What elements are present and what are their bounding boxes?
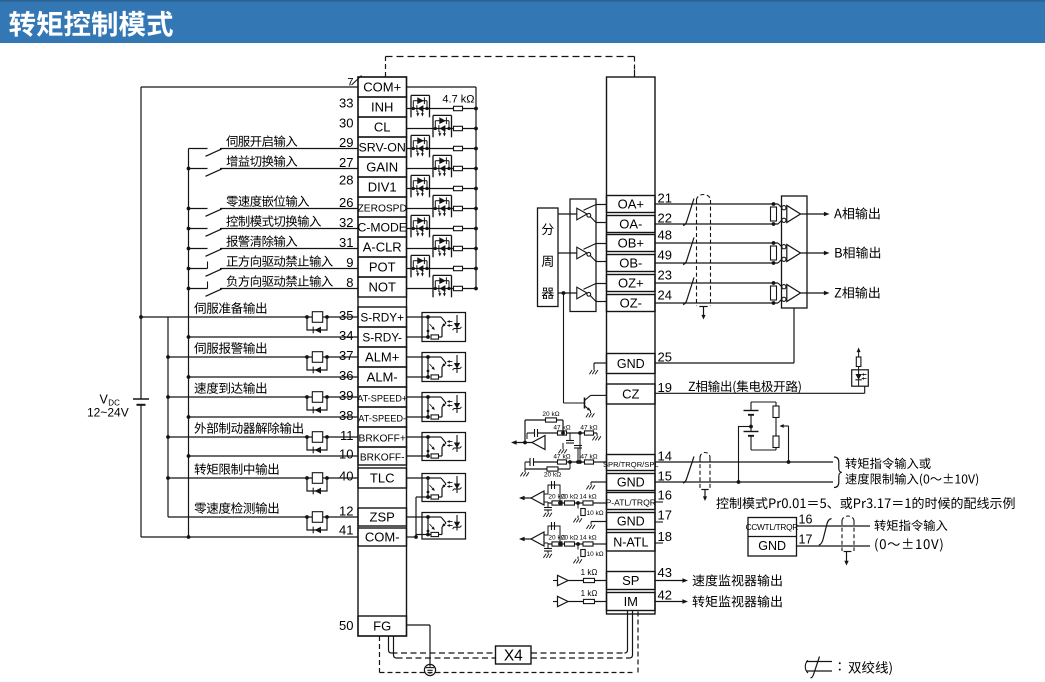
svg-text:16: 16: [658, 488, 672, 503]
svg-text:X4: X4: [504, 648, 523, 665]
svg-text:12: 12: [339, 504, 353, 519]
svg-text:TLC: TLC: [370, 471, 395, 486]
svg-text:ZEROSPD: ZEROSPD: [358, 204, 407, 215]
svg-text:49: 49: [658, 248, 672, 263]
svg-text:8: 8: [346, 275, 353, 290]
svg-text:29: 29: [339, 135, 353, 150]
svg-text:OZ+: OZ+: [618, 276, 644, 291]
svg-text:33: 33: [339, 96, 353, 111]
svg-text:ALM-: ALM-: [367, 370, 398, 385]
svg-text:SRV-ON: SRV-ON: [359, 141, 406, 155]
svg-text:OZ-: OZ-: [620, 296, 642, 311]
svg-text:41: 41: [339, 523, 353, 538]
svg-text:COM+: COM+: [363, 80, 401, 95]
svg-text:42: 42: [658, 588, 672, 603]
svg-text:31: 31: [339, 235, 353, 250]
svg-text:10 kΩ: 10 kΩ: [587, 510, 604, 517]
svg-text:N-ATL: N-ATL: [613, 536, 648, 550]
svg-text:34: 34: [339, 328, 353, 343]
svg-text:SPR/TRQR/SPL: SPR/TRQR/SPL: [603, 460, 659, 469]
svg-text:AT-SPEED+: AT-SPEED+: [357, 394, 407, 404]
svg-text:47 kΩ: 47 kΩ: [553, 453, 570, 460]
svg-text:S-RDY+: S-RDY+: [360, 311, 404, 325]
svg-text:17: 17: [658, 508, 672, 523]
svg-text:23: 23: [658, 268, 672, 283]
svg-text:CL: CL: [374, 120, 391, 135]
svg-text:CCWTL/TRQR: CCWTL/TRQR: [746, 522, 799, 532]
svg-text:14: 14: [658, 449, 672, 464]
svg-text:50: 50: [339, 618, 353, 633]
svg-text:ZSP: ZSP: [370, 510, 395, 525]
svg-text:GND: GND: [617, 515, 645, 529]
svg-text:BRKOFF-: BRKOFF-: [360, 453, 405, 464]
svg-text:GND: GND: [617, 357, 645, 371]
svg-text:OA+: OA+: [618, 197, 644, 212]
svg-text:15: 15: [658, 469, 672, 484]
svg-text:10 kΩ: 10 kΩ: [587, 551, 604, 558]
svg-text:CZ: CZ: [622, 387, 639, 402]
svg-text:ALM+: ALM+: [365, 350, 399, 365]
svg-text:1 kΩ: 1 kΩ: [581, 568, 598, 577]
svg-text:4.7 kΩ: 4.7 kΩ: [442, 94, 474, 106]
svg-text:24: 24: [658, 288, 672, 303]
svg-text:47 kΩ: 47 kΩ: [580, 453, 597, 460]
svg-text:10: 10: [339, 447, 353, 462]
svg-text:28: 28: [339, 173, 353, 188]
svg-text:20 kΩ: 20 kΩ: [561, 493, 578, 500]
svg-text:39: 39: [339, 388, 353, 403]
svg-text:S-RDY-: S-RDY-: [362, 331, 402, 345]
svg-text:OA-: OA-: [619, 217, 642, 232]
svg-text:V: V: [100, 393, 109, 407]
svg-text:BRKOFF+: BRKOFF+: [359, 434, 406, 445]
svg-text:IM: IM: [624, 594, 638, 609]
svg-text:A-CLR: A-CLR: [363, 240, 402, 255]
svg-text:16: 16: [799, 513, 813, 527]
svg-text:38: 38: [339, 408, 353, 423]
svg-text:1 kΩ: 1 kΩ: [581, 589, 598, 598]
svg-text:FG: FG: [373, 619, 391, 634]
svg-text:GND: GND: [758, 539, 786, 553]
svg-text:GND: GND: [617, 476, 645, 490]
svg-text:OB+: OB+: [618, 236, 644, 251]
svg-text:47 kΩ: 47 kΩ: [580, 424, 597, 431]
svg-text:40: 40: [339, 469, 353, 484]
svg-text:25: 25: [658, 350, 672, 365]
svg-text:11: 11: [340, 428, 354, 443]
svg-text:30: 30: [339, 116, 353, 131]
svg-text:17: 17: [799, 533, 813, 547]
svg-text:INH: INH: [371, 100, 393, 115]
svg-text:12~24V: 12~24V: [87, 406, 129, 420]
svg-text:NOT: NOT: [368, 280, 396, 295]
svg-text:43: 43: [658, 565, 672, 580]
svg-text:37: 37: [339, 348, 353, 363]
svg-text:22: 22: [658, 211, 672, 226]
svg-text:20 kΩ: 20 kΩ: [561, 534, 578, 541]
svg-text:SP: SP: [622, 573, 639, 588]
svg-text:27: 27: [339, 155, 353, 170]
svg-text:20 kΩ: 20 kΩ: [542, 411, 559, 418]
svg-text:P-ATL/TRQR: P-ATL/TRQR: [606, 498, 656, 508]
svg-text:POT: POT: [369, 260, 396, 275]
svg-text:48: 48: [658, 228, 672, 243]
svg-text:14 kΩ: 14 kΩ: [579, 534, 596, 541]
svg-text:20 kΩ: 20 kΩ: [544, 472, 561, 479]
svg-text:36: 36: [339, 368, 353, 383]
svg-text:COM-: COM-: [365, 530, 400, 545]
svg-text:AT-SPEED-: AT-SPEED-: [358, 414, 406, 424]
svg-text:OB-: OB-: [619, 256, 642, 271]
svg-text:GAIN: GAIN: [366, 160, 398, 175]
svg-text:47 kΩ: 47 kΩ: [553, 424, 570, 431]
svg-text:14 kΩ: 14 kΩ: [579, 493, 596, 500]
svg-text:18: 18: [658, 529, 672, 544]
svg-text:21: 21: [658, 191, 672, 206]
svg-text:9: 9: [346, 255, 353, 270]
svg-text:26: 26: [339, 195, 353, 210]
svg-text:35: 35: [339, 308, 353, 323]
svg-text:C-MODE: C-MODE: [357, 221, 406, 235]
svg-text:DIV1: DIV1: [368, 180, 397, 195]
svg-text:32: 32: [339, 215, 353, 230]
